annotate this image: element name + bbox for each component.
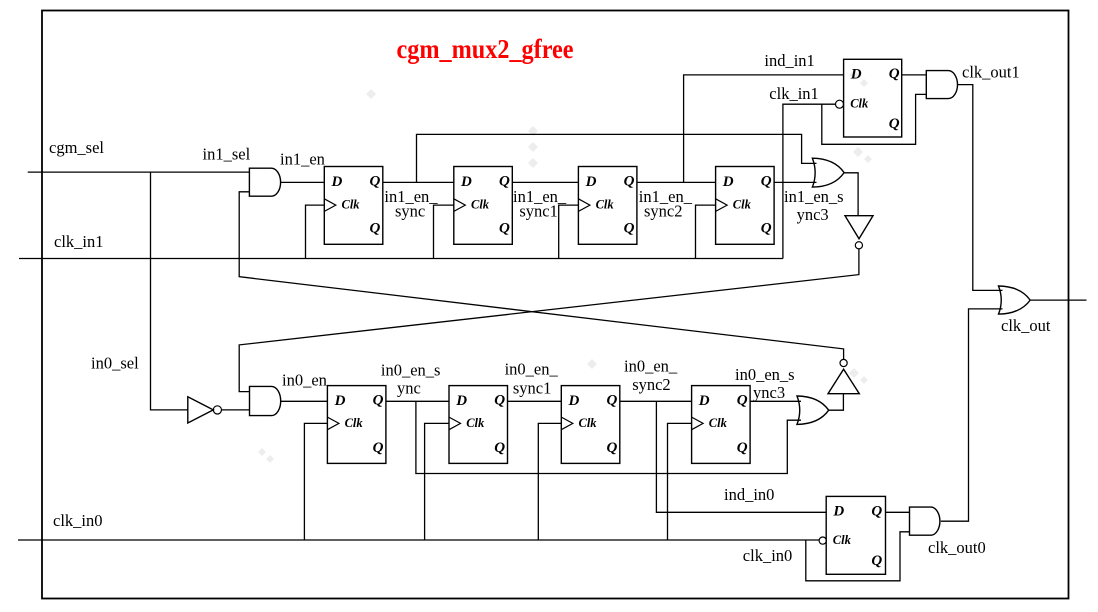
wire in0_sel drop from cgm_sel	[151, 172, 188, 410]
svg-text:clk_out0: clk_out0	[928, 538, 986, 557]
svg-text:Q: Q	[373, 393, 384, 409]
flip-flop U6 in0_en_sync	[327, 386, 386, 464]
svg-text:D: D	[832, 504, 844, 520]
svg-text:ind_in0: ind_in0	[724, 485, 774, 504]
svg-text:Clk: Clk	[342, 198, 361, 212]
flip-flop U10 ind_in0	[826, 496, 885, 574]
wire U7.Q to U8.D	[508, 400, 562, 402]
wire clk_in1 riser to U5 clock	[783, 104, 836, 258]
wire U9 clock drop	[668, 423, 692, 540]
wire G5 output to U6.D	[281, 400, 328, 402]
U5 clock bubble	[836, 100, 844, 108]
svg-text:D: D	[455, 393, 467, 409]
svg-text:D: D	[698, 393, 710, 409]
wire U3.Q to U4.D	[637, 181, 716, 183]
wire clk_in0 rail	[18, 539, 819, 541]
svg-text:D: D	[585, 174, 597, 190]
svg-text:in0_en: in0_en	[282, 371, 327, 390]
svg-text:in1_sel: in1_sel	[203, 145, 251, 164]
or-gate G9 clk_out	[999, 286, 1031, 314]
and-gate G1 in1_sel	[249, 168, 280, 196]
svg-text:Q: Q	[737, 440, 748, 456]
svg-text:ind_in1: ind_in1	[764, 51, 814, 70]
svg-text:clk_in0: clk_in0	[743, 546, 793, 565]
wire G1 output to U1.D	[280, 181, 324, 183]
wire clk_in1 branch under U5 to G4 lower input	[822, 94, 927, 144]
wire G3 output cross-diagonal to G5 top input	[239, 249, 859, 392]
svg-text:in1_en_s: in1_en_s	[784, 187, 844, 206]
svg-text:Q: Q	[494, 440, 505, 456]
wire clk_out1 to G9 top input	[958, 85, 1003, 291]
wire G6 output to G5 lower input	[222, 409, 250, 411]
svg-text:Q: Q	[871, 553, 882, 569]
svg-text:Clk: Clk	[345, 416, 364, 430]
flip-flop U5 ind_in1	[844, 59, 902, 137]
or-gate G7 in0	[797, 396, 829, 424]
wire U3 clock drop	[559, 205, 579, 258]
wire U2 clock drop	[434, 205, 454, 258]
wire G7 output to inverter G8	[829, 394, 844, 411]
svg-text:Q: Q	[761, 221, 772, 237]
wire U7 clock drop	[425, 423, 449, 540]
wire clk_in1 rail	[19, 258, 783, 260]
svg-text:cgm_mux2_gfree: cgm_mux2_gfree	[397, 33, 574, 64]
inverter G3 bubble	[855, 242, 862, 249]
flip-flop U4 in1_en_sync3	[716, 167, 775, 245]
wire U8.Q to U9.D	[620, 400, 692, 402]
svg-text:in0_en_s: in0_en_s	[735, 365, 795, 384]
wire in0_en_sync tap to G7 lower input	[416, 401, 801, 473]
svg-text:Q: Q	[889, 116, 900, 132]
and-gate G5 in0_en	[250, 386, 281, 415]
svg-text:clk_in1: clk_in1	[54, 232, 104, 251]
svg-text:D: D	[850, 66, 862, 82]
svg-text:Clk: Clk	[850, 97, 869, 111]
svg-text:Q: Q	[494, 393, 505, 409]
svg-text:clk_in0: clk_in0	[53, 511, 103, 530]
svg-text:Q: Q	[373, 440, 384, 456]
svg-text:clk_out: clk_out	[1001, 316, 1051, 335]
svg-text:Clk: Clk	[471, 198, 490, 212]
flip-flop U9 in0_en_sync3	[692, 386, 751, 464]
flip-flop U1 in1_en_sync	[324, 167, 383, 245]
wire clk_out0 to G9 bottom input	[941, 309, 1003, 521]
wire in1_en_sync tap to G2 top input	[417, 134, 817, 182]
inverter G6 bubble	[213, 406, 221, 414]
svg-text:sync1: sync1	[519, 201, 558, 220]
svg-text:in0_en_: in0_en_	[505, 360, 559, 379]
svg-text:Q: Q	[499, 173, 510, 189]
svg-text:sync2: sync2	[632, 375, 671, 394]
svg-text:Q: Q	[370, 173, 381, 189]
wire U4 clock drop	[696, 205, 716, 258]
svg-text:Q: Q	[370, 221, 381, 237]
inverter G8 triangle	[828, 369, 859, 394]
svg-text:ync: ync	[397, 379, 421, 398]
svg-text:Q: Q	[871, 503, 882, 519]
svg-text:cgm_sel: cgm_sel	[49, 138, 104, 157]
inverter G3 triangle	[845, 216, 873, 239]
svg-text:Q: Q	[761, 173, 772, 189]
wire ind_in0 tap down to U10.D	[656, 401, 826, 512]
wire U6 clock drop	[304, 423, 327, 540]
svg-text:Clk: Clk	[709, 416, 728, 430]
and-gate G10 clk_out0	[910, 507, 940, 535]
svg-text:D: D	[568, 393, 580, 409]
svg-text:Q: Q	[889, 66, 900, 82]
and-gate G4 clk_out1	[926, 71, 957, 99]
svg-text:Clk: Clk	[579, 416, 598, 430]
svg-text:ync3: ync3	[797, 205, 829, 224]
svg-text:D: D	[460, 174, 472, 190]
svg-text:Clk: Clk	[466, 416, 485, 430]
svg-text:Clk: Clk	[596, 198, 615, 212]
flip-flop U7 in0_en_sync1	[449, 386, 508, 464]
svg-text:Q: Q	[624, 221, 635, 237]
wire clk_out output	[1030, 299, 1086, 301]
svg-text:sync1: sync1	[513, 379, 552, 398]
U10 clock bubble	[819, 537, 826, 544]
svg-text:sync: sync	[395, 201, 425, 220]
svg-text:sync2: sync2	[644, 201, 683, 220]
svg-text:Q: Q	[499, 221, 510, 237]
svg-text:D: D	[331, 174, 343, 190]
wire U5.Q to G4 upper input	[902, 74, 927, 76]
wire U1 clock drop	[306, 205, 325, 258]
flip-flop U3 in1_en_sync2	[578, 167, 637, 245]
svg-text:ync3: ync3	[753, 383, 785, 402]
wire U10.Q to G10 upper input	[886, 511, 910, 513]
svg-text:in0_sel: in0_sel	[91, 354, 139, 373]
wire cgm_sel rail	[28, 171, 250, 173]
wire U8 clock drop	[538, 423, 561, 540]
wire U1.Q to U2.D	[383, 181, 454, 183]
wire U6.Q to U7.D	[386, 400, 449, 402]
wire U4.Q to G2 lower input	[774, 181, 816, 183]
flip-flop U2 in1_en_sync1	[454, 167, 513, 245]
svg-text:in0_en_: in0_en_	[624, 357, 678, 376]
or-gate G2 in1	[812, 158, 844, 187]
wire clk_in0 branch under U10 to G10 lower input	[806, 532, 910, 581]
wire G2 output to inverter G3	[844, 173, 858, 216]
wire U2.Q to U3.D	[512, 181, 578, 183]
svg-text:clk_out1: clk_out1	[962, 63, 1020, 82]
flip-flop U8 in0_en_sync2	[561, 386, 620, 464]
svg-text:Clk: Clk	[833, 533, 852, 547]
svg-text:clk_in1: clk_in1	[769, 84, 819, 103]
wire U9.Q to G7 top input	[750, 400, 801, 402]
svg-text:in0_en_s: in0_en_s	[381, 361, 441, 380]
svg-text:Clk: Clk	[733, 198, 752, 212]
svg-text:in1_en: in1_en	[280, 150, 325, 169]
wire G1 lower input from cross-net diagonal	[239, 192, 843, 360]
svg-text:D: D	[334, 393, 346, 409]
svg-text:D: D	[722, 174, 734, 190]
svg-text:Q: Q	[737, 393, 748, 409]
inverter G6 in0_sel triangle	[188, 397, 214, 423]
svg-text:Q: Q	[607, 440, 618, 456]
inverter G8 bubble	[840, 359, 847, 366]
svg-text:Q: Q	[624, 173, 635, 189]
svg-text:Q: Q	[607, 393, 618, 409]
wire ind_in1 tap up to U5.D	[684, 75, 844, 182]
